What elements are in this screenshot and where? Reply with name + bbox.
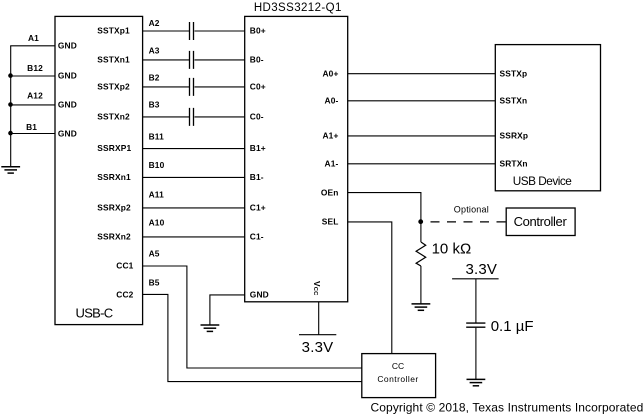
svg-text:OEn: OEn <box>321 188 339 198</box>
wire B1 GND <box>10 133 55 135</box>
svg-text:SSTXn1: SSTXn1 <box>97 55 130 65</box>
wire B2: SSTXp2 to C0+ <box>142 86 244 88</box>
capacitor C3 <box>190 78 194 96</box>
svg-text:A5: A5 <box>149 248 160 258</box>
ground (below R1) <box>412 304 431 310</box>
svg-text:B2: B2 <box>149 72 160 82</box>
svg-text:SSRXp2: SSRXp2 <box>97 203 131 213</box>
svg-text:A0+: A0+ <box>322 69 338 79</box>
svg-text:C0-: C0- <box>250 112 264 122</box>
svg-text:A1-: A1- <box>325 159 339 169</box>
wire capacitor to ground <box>475 328 477 380</box>
svg-text:B1+: B1+ <box>250 143 266 153</box>
ground (U1 GND) <box>201 325 220 331</box>
svg-text:SEL: SEL <box>322 217 339 227</box>
svg-text:SSTXp1: SSTXp1 <box>97 26 130 36</box>
capacitor C1 <box>190 22 194 40</box>
svg-text:A2: A2 <box>149 18 160 28</box>
wire A1+ to SSRXp <box>348 135 496 137</box>
U1 Vcc wire <box>318 302 320 335</box>
svg-text:SSTXp: SSTXp <box>500 69 528 79</box>
svg-text:Copyright © 2018, Texas Instru: Copyright © 2018, Texas Instruments Inco… <box>371 401 643 415</box>
svg-text:3.3V: 3.3V <box>302 339 334 356</box>
wire rail to capacitor <box>475 279 477 323</box>
svg-text:B0+: B0+ <box>250 26 266 36</box>
svg-text:3.3V: 3.3V <box>465 261 497 278</box>
svg-text:Controller: Controller <box>514 214 568 229</box>
wire B5: CC2 to CC Controller <box>142 294 361 381</box>
svg-text:SSTXn: SSTXn <box>500 96 528 106</box>
svg-text:A10: A10 <box>149 217 165 227</box>
svg-text:HD3SS3212-Q1: HD3SS3212-Q1 <box>254 2 342 14</box>
svg-text:SSTXn2: SSTXn2 <box>97 112 130 122</box>
wire A1 GND <box>10 45 55 47</box>
wire A12 GND <box>10 104 55 106</box>
svg-text:B12: B12 <box>27 63 43 73</box>
junction B12 <box>8 73 13 78</box>
svg-text:A0-: A0- <box>325 96 339 106</box>
wire OEn to resistor <box>420 222 422 242</box>
junction B1 <box>8 131 13 136</box>
svg-text:B0-: B0- <box>250 55 264 65</box>
junction A12 <box>8 102 13 107</box>
CC Controller box <box>362 354 436 398</box>
wire B3: SSTXn2 to C0- <box>142 116 244 118</box>
junction OEn node <box>418 219 423 224</box>
wire A5: CC1 to CC Controller <box>142 266 361 368</box>
svg-text:B1: B1 <box>26 122 37 132</box>
wire A2: SSTXp1 to B0+ <box>142 30 244 32</box>
svg-text:C1-: C1- <box>250 232 264 242</box>
supply rail 3.3V (decoupling) <box>452 278 499 280</box>
wire B12 GND <box>10 75 55 77</box>
ground (below C5) <box>467 379 486 385</box>
svg-text:A1+: A1+ <box>322 131 338 141</box>
wire A10: SSRXn2 to C1- <box>142 236 244 238</box>
ground bus wire (left) <box>10 46 12 167</box>
U1 GND wire <box>210 295 245 325</box>
svg-text:B5: B5 <box>149 277 160 287</box>
svg-text:B10: B10 <box>149 160 165 170</box>
mux U1 HD3SS3212-Q1 <box>245 16 348 301</box>
capacitor C2 <box>190 51 194 69</box>
wire A0+ to SSTXp <box>348 73 496 75</box>
svg-text:0.1 µF: 0.1 µF <box>491 318 534 335</box>
svg-text:GND: GND <box>58 129 77 139</box>
resistor R1 10 kOhm <box>416 242 426 266</box>
svg-text:CC: CC <box>392 361 404 371</box>
svg-text:SSRXn1: SSRXn1 <box>97 172 131 182</box>
svg-text:SSRXn2: SSRXn2 <box>97 232 131 242</box>
svg-text:SSTXp2: SSTXp2 <box>97 82 130 92</box>
svg-text:SSRXp: SSRXp <box>500 131 529 141</box>
USB Device box <box>495 45 600 191</box>
svg-text:B3: B3 <box>149 100 160 110</box>
wire A3: SSTXn1 to B0- <box>142 59 244 61</box>
svg-text:SSRXP1: SSRXP1 <box>97 143 131 153</box>
wire B10: SSRXn1 to B1- <box>142 176 244 178</box>
wire resistor to ground <box>420 266 422 304</box>
wire B11: SSRXP1 to B1+ <box>142 148 244 150</box>
svg-text:CC2: CC2 <box>116 290 133 300</box>
Controller box <box>506 208 575 236</box>
wire A1- to SRTXn <box>348 163 496 165</box>
svg-text:USB-C: USB-C <box>76 306 113 321</box>
svg-text:GND: GND <box>58 71 77 81</box>
svg-text:A1: A1 <box>28 33 39 43</box>
svg-text:USB Device: USB Device <box>513 174 573 188</box>
dashed optional wire to Controller <box>431 221 507 223</box>
svg-text:A12: A12 <box>27 91 43 101</box>
svg-text:10 kΩ: 10 kΩ <box>432 240 472 257</box>
wire A11: SSRXp2 to C1+ <box>142 207 244 209</box>
wire OEn <box>348 193 421 222</box>
supply rail 3.3V (U1) <box>299 334 336 336</box>
svg-text:Optional: Optional <box>454 204 489 214</box>
svg-text:A3: A3 <box>149 45 160 55</box>
svg-text:CC1: CC1 <box>116 261 133 271</box>
svg-text:GND: GND <box>250 290 269 300</box>
capacitor C5 0.1 uF <box>466 323 485 327</box>
svg-text:C1+: C1+ <box>250 203 266 213</box>
USB-C connector box J1 <box>55 16 143 324</box>
svg-text:Controller: Controller <box>377 374 418 384</box>
svg-text:A11: A11 <box>149 190 165 200</box>
svg-text:SRTXn: SRTXn <box>500 159 528 169</box>
svg-text:GND: GND <box>58 100 77 110</box>
wire A0- to SSTXn <box>348 100 496 102</box>
ground (left bus) <box>1 167 20 173</box>
capacitor C4 <box>190 108 194 126</box>
svg-text:GND: GND <box>58 41 77 51</box>
svg-text:B11: B11 <box>149 132 165 142</box>
svg-text:B1-: B1- <box>250 172 264 182</box>
wire SEL <box>348 222 392 354</box>
svg-text:C0+: C0+ <box>250 82 266 92</box>
